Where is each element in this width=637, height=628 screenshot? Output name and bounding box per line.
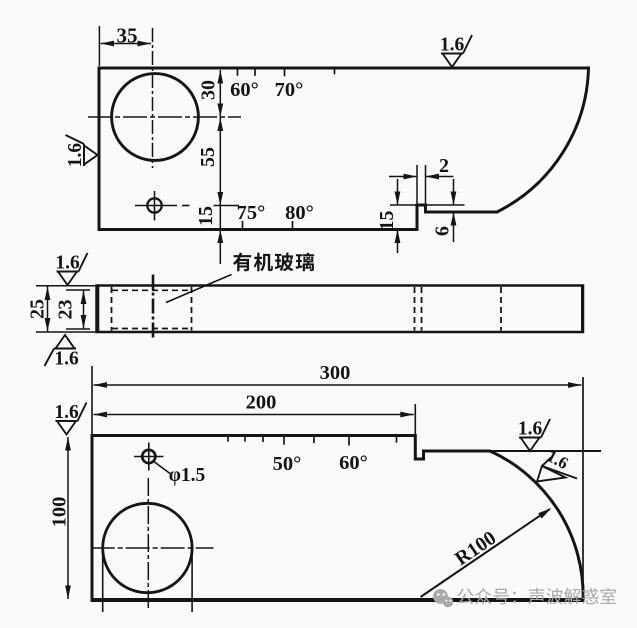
roughness 1.6 top [440,35,472,68]
middle view rectangle [97,286,584,333]
notch dim 2 [416,165,418,204]
svg-text:1.6: 1.6 [54,402,79,423]
svg-text:70°: 70° [275,79,304,101]
svg-text:35: 35 [117,24,138,48]
svg-text:15: 15 [195,206,217,226]
svg-text:2: 2 [439,155,449,177]
big hole circle [112,74,199,161]
notch dim 15 [397,179,399,205]
hole centerline through middle view [152,275,155,340]
svg-text:30: 30 [198,80,220,100]
svg-text:1.6: 1.6 [55,253,80,274]
roughness 1.6 right surface [518,419,550,452]
roughness 1.6 middle bottom (flipped) [56,335,75,349]
roughness 1.6 left [65,135,98,167]
label youji boli (plexiglass) [233,253,314,272]
notch extension y205 [390,204,465,206]
dim 35 extension line [98,26,100,66]
bottom edge ticks [242,221,244,228]
centerline horizontal of big hole [88,116,241,118]
svg-text:1.6: 1.6 [518,419,543,440]
top edge ticks [237,69,239,76]
tangent extension lines [102,540,104,612]
svg-text:1.6: 1.6 [54,349,79,370]
small hole [147,198,161,212]
roughness 1.6 bottom-view left [54,402,86,435]
notch dim 6 [453,179,455,205]
svg-text:25: 25 [27,299,49,319]
hidden line arc [500,287,502,331]
centerline vertical of big hole [152,28,154,168]
svg-text:1.6: 1.6 [440,35,465,56]
small hole phi1.5 [142,450,155,463]
svg-text:60°: 60° [339,452,368,474]
dim 23 [66,289,90,291]
hidden lines notch [414,287,416,331]
svg-text:80°: 80° [285,202,314,224]
dim 100 [67,437,69,599]
svg-text:φ1.5: φ1.5 [169,465,206,486]
big circle bottom view [103,503,192,592]
dim line 30/55/15 [219,70,221,264]
leader line [166,275,232,303]
svg-text:55: 55 [197,147,219,167]
dim 35 [101,43,152,45]
svg-text:15: 15 [376,211,398,231]
R100 leader [421,509,550,597]
top view part outline [99,68,589,230]
svg-text:200: 200 [246,392,277,414]
roughness 1.6 middle top [55,253,87,286]
dim 300 [91,366,93,434]
svg-text:50°: 50° [273,453,302,475]
dim 25 [36,285,96,287]
svg-text:60°: 60° [230,79,259,101]
svg-text:75°: 75° [237,202,266,224]
top edge ticks bottom view [227,437,229,442]
roughness 1.6 on arc (tilted) [537,446,577,481]
right surface extension [489,450,601,452]
dim 200 [414,404,416,435]
watermark icon [433,589,453,607]
svg-text:6: 6 [432,226,454,236]
svg-text:300: 300 [320,362,351,384]
svg-text:1.6: 1.6 [65,143,86,168]
watermark text [457,588,616,605]
bottom view part outline [92,436,583,601]
plexiglass insert hidden lines [111,287,113,331]
svg-text:100: 100 [49,497,71,528]
svg-text:23: 23 [55,300,77,320]
